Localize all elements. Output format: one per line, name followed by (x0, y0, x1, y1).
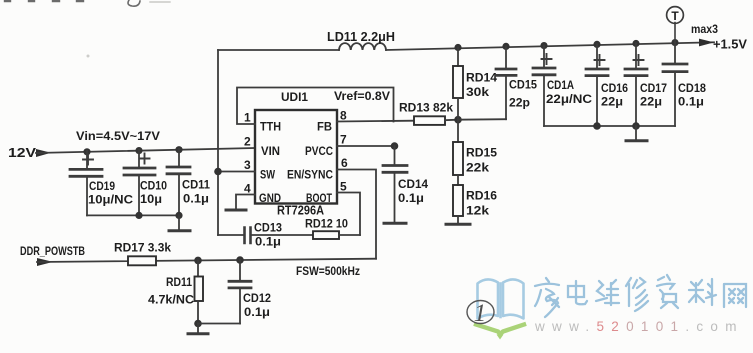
wire: SW node vertical column (x=218) from top rail down to CD13 (217, 50, 219, 235)
op-amp/regulator IC U1 UDI1 RT7296A body (255, 110, 337, 204)
svg-text:RD15: RD15 (466, 148, 498, 160)
svg-text:22μ: 22μ (601, 97, 623, 109)
svg-text:RD17 3.3k: RD17 3.3k (114, 241, 171, 255)
svg-text:CD17: CD17 (640, 83, 667, 95)
svg-text:CD18: CD18 (678, 83, 707, 95)
wire: input caps bottom bus (87, 214, 179, 216)
output arrow +1.5V max3 (699, 39, 714, 47)
svg-text:CD10: CD10 (140, 181, 167, 193)
svg-text:CD14: CD14 (398, 179, 429, 191)
svg-text:Vin=4.5V~17V: Vin=4.5V~17V (76, 129, 160, 143)
svg-text:0.1μ: 0.1μ (244, 307, 270, 319)
resistor RD14 30k (457, 48, 459, 67)
svg-text:30k: 30k (466, 87, 490, 99)
svg-text:T: T (671, 9, 679, 23)
svg-text:LD11 2.2μH: LD11 2.2μH (327, 30, 395, 44)
svg-text:10μ/NC: 10μ/NC (88, 195, 133, 207)
svg-text:4: 4 (244, 182, 251, 196)
wire: pin3 SW stub (218, 171, 255, 173)
ground under CD14 (384, 222, 406, 225)
watermark hanzi wei (596, 280, 619, 305)
capacitor CD10 10u (124, 150, 155, 215)
svg-text:CD1A: CD1A (547, 80, 574, 92)
capacitor CD18 0.1u (663, 43, 687, 126)
svg-text:EN/SYNC: EN/SYNC (287, 168, 333, 182)
capacitor CD1A 22u/NC (533, 46, 555, 126)
test point T (667, 7, 684, 24)
svg-text:FSW=500kHz: FSW=500kHz (296, 264, 360, 278)
svg-text:5: 5 (340, 180, 347, 194)
node: dots on DDR net (194, 257, 202, 265)
watermark green book base (476, 325, 524, 335)
wire: RD15 to RD16 (457, 175, 459, 185)
svg-text:6: 6 (341, 156, 348, 170)
svg-text:DDR_POWSTB: DDR_POWSTB (20, 246, 85, 258)
wire: output caps bottom bus (544, 125, 675, 127)
svg-text:3: 3 (244, 158, 251, 172)
capacitor CD14 0.1u (PVCC decoupling) (383, 146, 407, 223)
node: dots on 12V rail (83, 146, 182, 155)
watermark book icon (478, 279, 524, 318)
svg-text:2: 2 (244, 135, 251, 149)
watermark hanzi xiu (626, 278, 648, 311)
node: FB divider node (454, 116, 462, 124)
capacitor CD12 0.1u (198, 260, 251, 324)
node: junction dots on output rail (454, 39, 678, 51)
capacitor CD13 0.1u (bootstrap) (218, 228, 313, 244)
ground under RD11 (197, 324, 199, 334)
capacitor CD11 0.1u (167, 149, 190, 215)
wire: pin7 PVCC stub (337, 145, 395, 147)
svg-text:10μ: 10μ (140, 194, 162, 206)
wire: pin5 BOOT stub down to RD12 (337, 193, 360, 236)
resistor RD13 82k (414, 116, 445, 125)
svg-text:VIN: VIN (261, 144, 280, 158)
svg-text:7: 7 (340, 133, 347, 147)
ground under input caps (178, 215, 180, 230)
svg-text:CD13: CD13 (254, 223, 282, 235)
watermark hanzi dian (568, 281, 587, 304)
svg-text:22μ/NC: 22μ/NC (546, 94, 592, 106)
resistor RD12 10 (313, 231, 339, 239)
svg-text:CD12: CD12 (243, 293, 271, 305)
svg-text:SW: SW (260, 168, 276, 182)
watermark hanzi liao (689, 279, 716, 305)
svg-text:12k: 12k (466, 206, 490, 218)
node: SW junction dot (214, 168, 222, 176)
svg-text:max3: max3 (691, 24, 718, 36)
wire: pin1 TTH stub and loop over IC to FB net (237, 88, 394, 125)
capacitor CD17 22u (625, 44, 647, 127)
wire: 12V input rail to VIN pin 2 (36, 148, 255, 153)
node: dots on input bus (135, 212, 142, 219)
svg-text:1: 1 (244, 111, 251, 125)
svg-text:CD16: CD16 (601, 83, 628, 95)
svg-text:+1.5V: +1.5V (713, 38, 748, 52)
wire: RD12 to BOOT corner (339, 234, 360, 236)
ground at GND pin (226, 209, 246, 212)
wire: output rail from inductor to +1.5V arrow (386, 42, 714, 50)
svg-text:22k: 22k (466, 163, 490, 175)
resistor RD16 12k (453, 185, 463, 216)
watermark hanzi jia (535, 278, 559, 317)
faint speck (87, 55, 90, 58)
capacitor CD19 10u/NC (70, 151, 102, 215)
capacitor CD16 22u (586, 44, 608, 126)
ground under output bus (635, 126, 637, 140)
svg-text:CD15: CD15 (509, 80, 538, 92)
svg-text:RD13 82k: RD13 82k (399, 101, 453, 115)
wire: pin4 GND stub (236, 195, 255, 210)
wire: pin8 FB to RD13 (337, 120, 414, 123)
resistor RD11 4.7k/NC (197, 260, 199, 276)
svg-text:RT7296A: RT7296A (277, 204, 324, 218)
node: dots on output bus (593, 122, 601, 130)
svg-text:TTH: TTH (260, 120, 281, 134)
svg-text:4.7k/NC: 4.7k/NC (148, 295, 194, 307)
svg-text:0.1μ: 0.1μ (398, 193, 424, 205)
svg-text:RD12 10: RD12 10 (305, 217, 348, 231)
resistor RD17 3.3k (128, 256, 156, 265)
svg-text:RD16: RD16 (466, 191, 497, 203)
svg-text:UDI1: UDI1 (281, 90, 308, 104)
wire: RD13 to FB divider node (445, 119, 458, 122)
wire: DDR_POWSTB net to EN/SYNC column (37, 259, 376, 262)
resistor RD15 22k (457, 120, 459, 142)
svg-text:0.1μ: 0.1μ (678, 97, 704, 109)
svg-text:RD11: RD11 (166, 277, 193, 289)
svg-text:1: 1 (474, 300, 487, 327)
svg-text:12V: 12V (8, 146, 37, 160)
svg-text:CD19: CD19 (89, 181, 115, 193)
svg-text:BOOT: BOOT (306, 191, 332, 205)
watermark hanzi wang (724, 284, 746, 307)
wire: top rail from SW column to inductor (218, 49, 339, 51)
svg-text:FB: FB (317, 120, 332, 134)
svg-text:0.1μ: 0.1μ (183, 194, 209, 206)
svg-text:www.520101.com: www.520101.com (534, 319, 744, 334)
svg-text:0.1μ: 0.1μ (255, 237, 281, 249)
svg-text:CD11: CD11 (182, 180, 211, 192)
watermark hanzi zi (657, 275, 678, 308)
svg-text:22μ: 22μ (640, 97, 662, 109)
svg-text:8: 8 (340, 109, 347, 123)
svg-text:Vref=0.8V: Vref=0.8V (334, 89, 390, 103)
svg-text:RD14: RD14 (466, 73, 498, 85)
svg-text:PVCC: PVCC (305, 144, 333, 158)
node: PVCC/CD14 dot (391, 142, 399, 150)
wire: pin6 EN/SYNC stub down to DDR net (337, 170, 376, 259)
cropped text remnants at top edge (5, 0, 170, 6)
watermark circled 1 (467, 301, 494, 324)
capacitor CD15 22p (feed-forward) (458, 46, 516, 119)
ground under RD16 (457, 216, 459, 224)
svg-text:GND: GND (259, 191, 281, 205)
inductor LD11 (339, 43, 386, 50)
node: RD11/CD12 bottom junction (194, 320, 202, 328)
svg-text:22p: 22p (509, 98, 530, 110)
